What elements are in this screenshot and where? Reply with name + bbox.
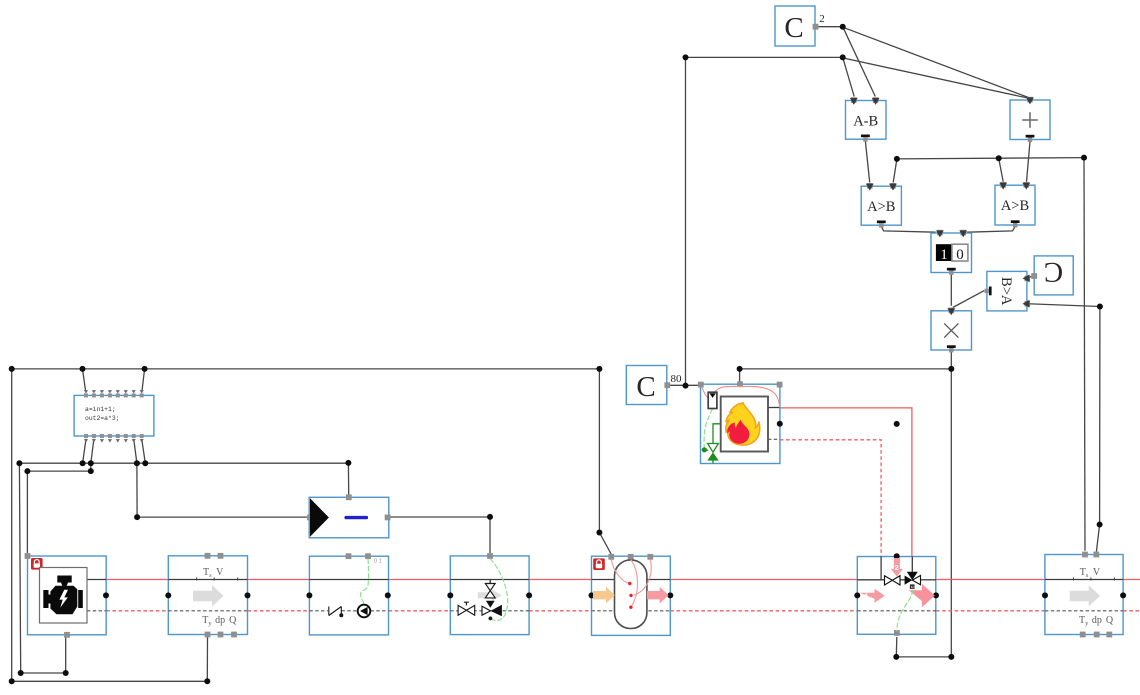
svg-text:1: 1 <box>940 247 948 263</box>
svg-text:TydpQ: TydpQ <box>202 615 237 627</box>
svg-text:M: M <box>911 585 914 589</box>
svg-text:2: 2 <box>895 563 899 572</box>
svg-text:TydpQ: TydpQ <box>1079 615 1114 627</box>
svg-text:80: 80 <box>671 373 683 385</box>
svg-text:0 1: 0 1 <box>374 559 382 565</box>
svg-text:C: C <box>636 371 655 403</box>
svg-text:0: 0 <box>956 247 964 263</box>
svg-text:A>B: A>B <box>867 199 895 215</box>
svg-text:1: 1 <box>864 592 868 601</box>
svg-text:C: C <box>784 12 803 44</box>
svg-text:A-B: A-B <box>853 114 878 130</box>
svg-text:2: 2 <box>819 13 825 25</box>
svg-text:out2=a*3;: out2=a*3; <box>85 415 120 422</box>
svg-text:C: C <box>1044 256 1063 288</box>
svg-text:a=in1+1;: a=in1+1; <box>85 406 116 413</box>
svg-text:A>B: A>B <box>1001 198 1029 214</box>
svg-text:B>A: B>A <box>998 277 1014 306</box>
